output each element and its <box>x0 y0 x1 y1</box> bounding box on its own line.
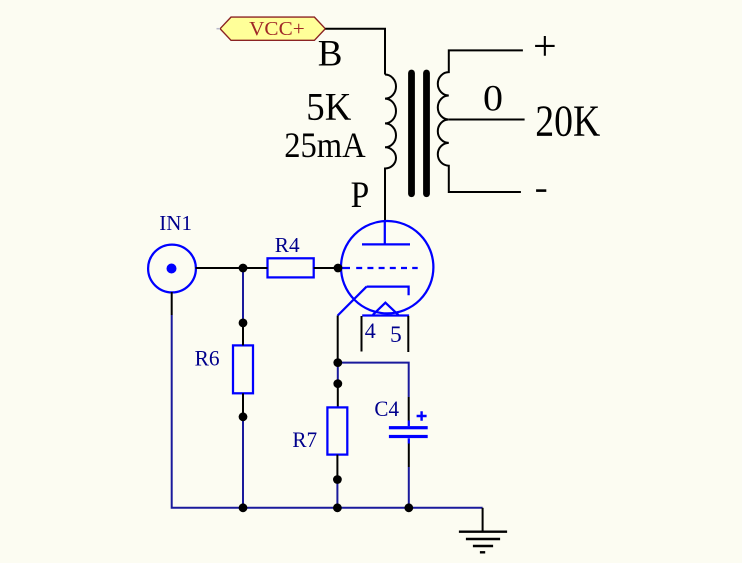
svg-text:20K: 20K <box>535 96 600 145</box>
svg-text:+: + <box>533 24 557 70</box>
svg-text:R7: R7 <box>292 427 317 452</box>
svg-text:IN1: IN1 <box>159 211 192 235</box>
svg-text:5K: 5K <box>306 84 351 128</box>
svg-text:5: 5 <box>390 322 402 348</box>
svg-text:P: P <box>351 175 370 216</box>
svg-text:4: 4 <box>365 318 376 343</box>
svg-text:25mA: 25mA <box>284 125 366 165</box>
svg-text:C4: C4 <box>374 396 399 421</box>
svg-text:R4: R4 <box>275 233 300 257</box>
svg-text:VCC+: VCC+ <box>249 18 305 40</box>
svg-text:R6: R6 <box>195 346 220 371</box>
svg-text:0: 0 <box>483 78 503 119</box>
svg-text:B: B <box>318 33 343 74</box>
